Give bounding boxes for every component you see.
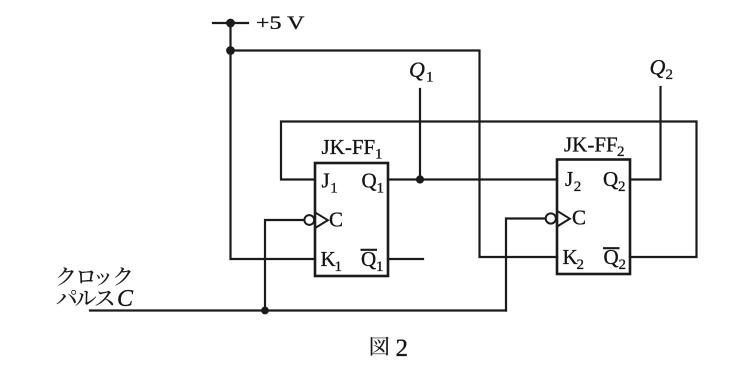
label kurokku: small tsu (96, 273, 109, 285)
svg-text:C: C (117, 286, 134, 312)
svg-text:J: J (565, 167, 573, 191)
svg-text:2: 2 (577, 257, 585, 273)
clock edge-trigger triangle U1 (316, 213, 328, 228)
wire clock line (90, 309, 506, 311)
svg-text:JK-FF: JK-FF (564, 133, 618, 157)
label parusu: pa (57, 290, 77, 304)
junction dot node Q1 (416, 175, 424, 183)
label parusu: ru (76, 291, 97, 306)
svg-text:Q: Q (409, 57, 425, 82)
svg-text:2: 2 (396, 335, 409, 362)
junction dot +5V stub (226, 19, 235, 28)
svg-text:K: K (321, 247, 336, 271)
svg-text:1: 1 (426, 70, 434, 86)
label kurokku: ku (58, 267, 74, 285)
svg-text:C: C (572, 206, 586, 230)
wire +5V branch to K2 input (231, 51, 558, 258)
svg-text:Q: Q (362, 169, 377, 193)
label kurokku: ku 2 (115, 267, 131, 285)
svg-text:2: 2 (619, 257, 627, 273)
wire Qbar1 output stub (388, 258, 423, 260)
svg-text:Q: Q (603, 167, 618, 191)
svg-text:1: 1 (376, 259, 384, 275)
inversion bubble U1 clock (304, 215, 314, 225)
caption zu (figure) (371, 337, 389, 356)
svg-text:Q: Q (650, 55, 666, 80)
wire Q2 output up to label (630, 87, 661, 180)
wire clock up to U2 C (506, 219, 546, 311)
wire Qbar2 feedback to J1 input (281, 122, 697, 258)
svg-text:1: 1 (330, 181, 338, 197)
svg-text:1: 1 (375, 147, 383, 163)
svg-text:+5 V: +5 V (256, 13, 305, 34)
svg-text:1: 1 (335, 259, 343, 275)
junction dot +5V branch (226, 46, 235, 55)
power rail +5V stub (213, 22, 248, 24)
wire Q1 output to J2 input (388, 178, 557, 180)
clock edge-trigger triangle U2 (558, 211, 570, 226)
junction dot clock to U1 (261, 307, 269, 315)
svg-text:2: 2 (617, 144, 625, 160)
svg-text:C: C (329, 208, 343, 232)
flip-flop U1 JK-FF1 box (315, 163, 388, 276)
svg-text:2: 2 (618, 179, 626, 195)
wire clock input to U1 C (265, 220, 304, 311)
svg-text:K: K (563, 245, 578, 269)
svg-text:2: 2 (574, 179, 582, 195)
label kurokku: ro (78, 271, 93, 284)
svg-text:J: J (322, 169, 330, 193)
svg-text:1: 1 (377, 181, 385, 197)
inversion bubble U2 clock (546, 213, 556, 223)
wire +5V down to K1 input (231, 23, 316, 259)
svg-text:JK-FF: JK-FF (322, 135, 376, 159)
wire Q1 node drop from label (419, 89, 421, 180)
label parusu: su (95, 291, 113, 306)
svg-text:2: 2 (666, 67, 674, 83)
flip-flop U2 JK-FF2 box (557, 160, 630, 275)
